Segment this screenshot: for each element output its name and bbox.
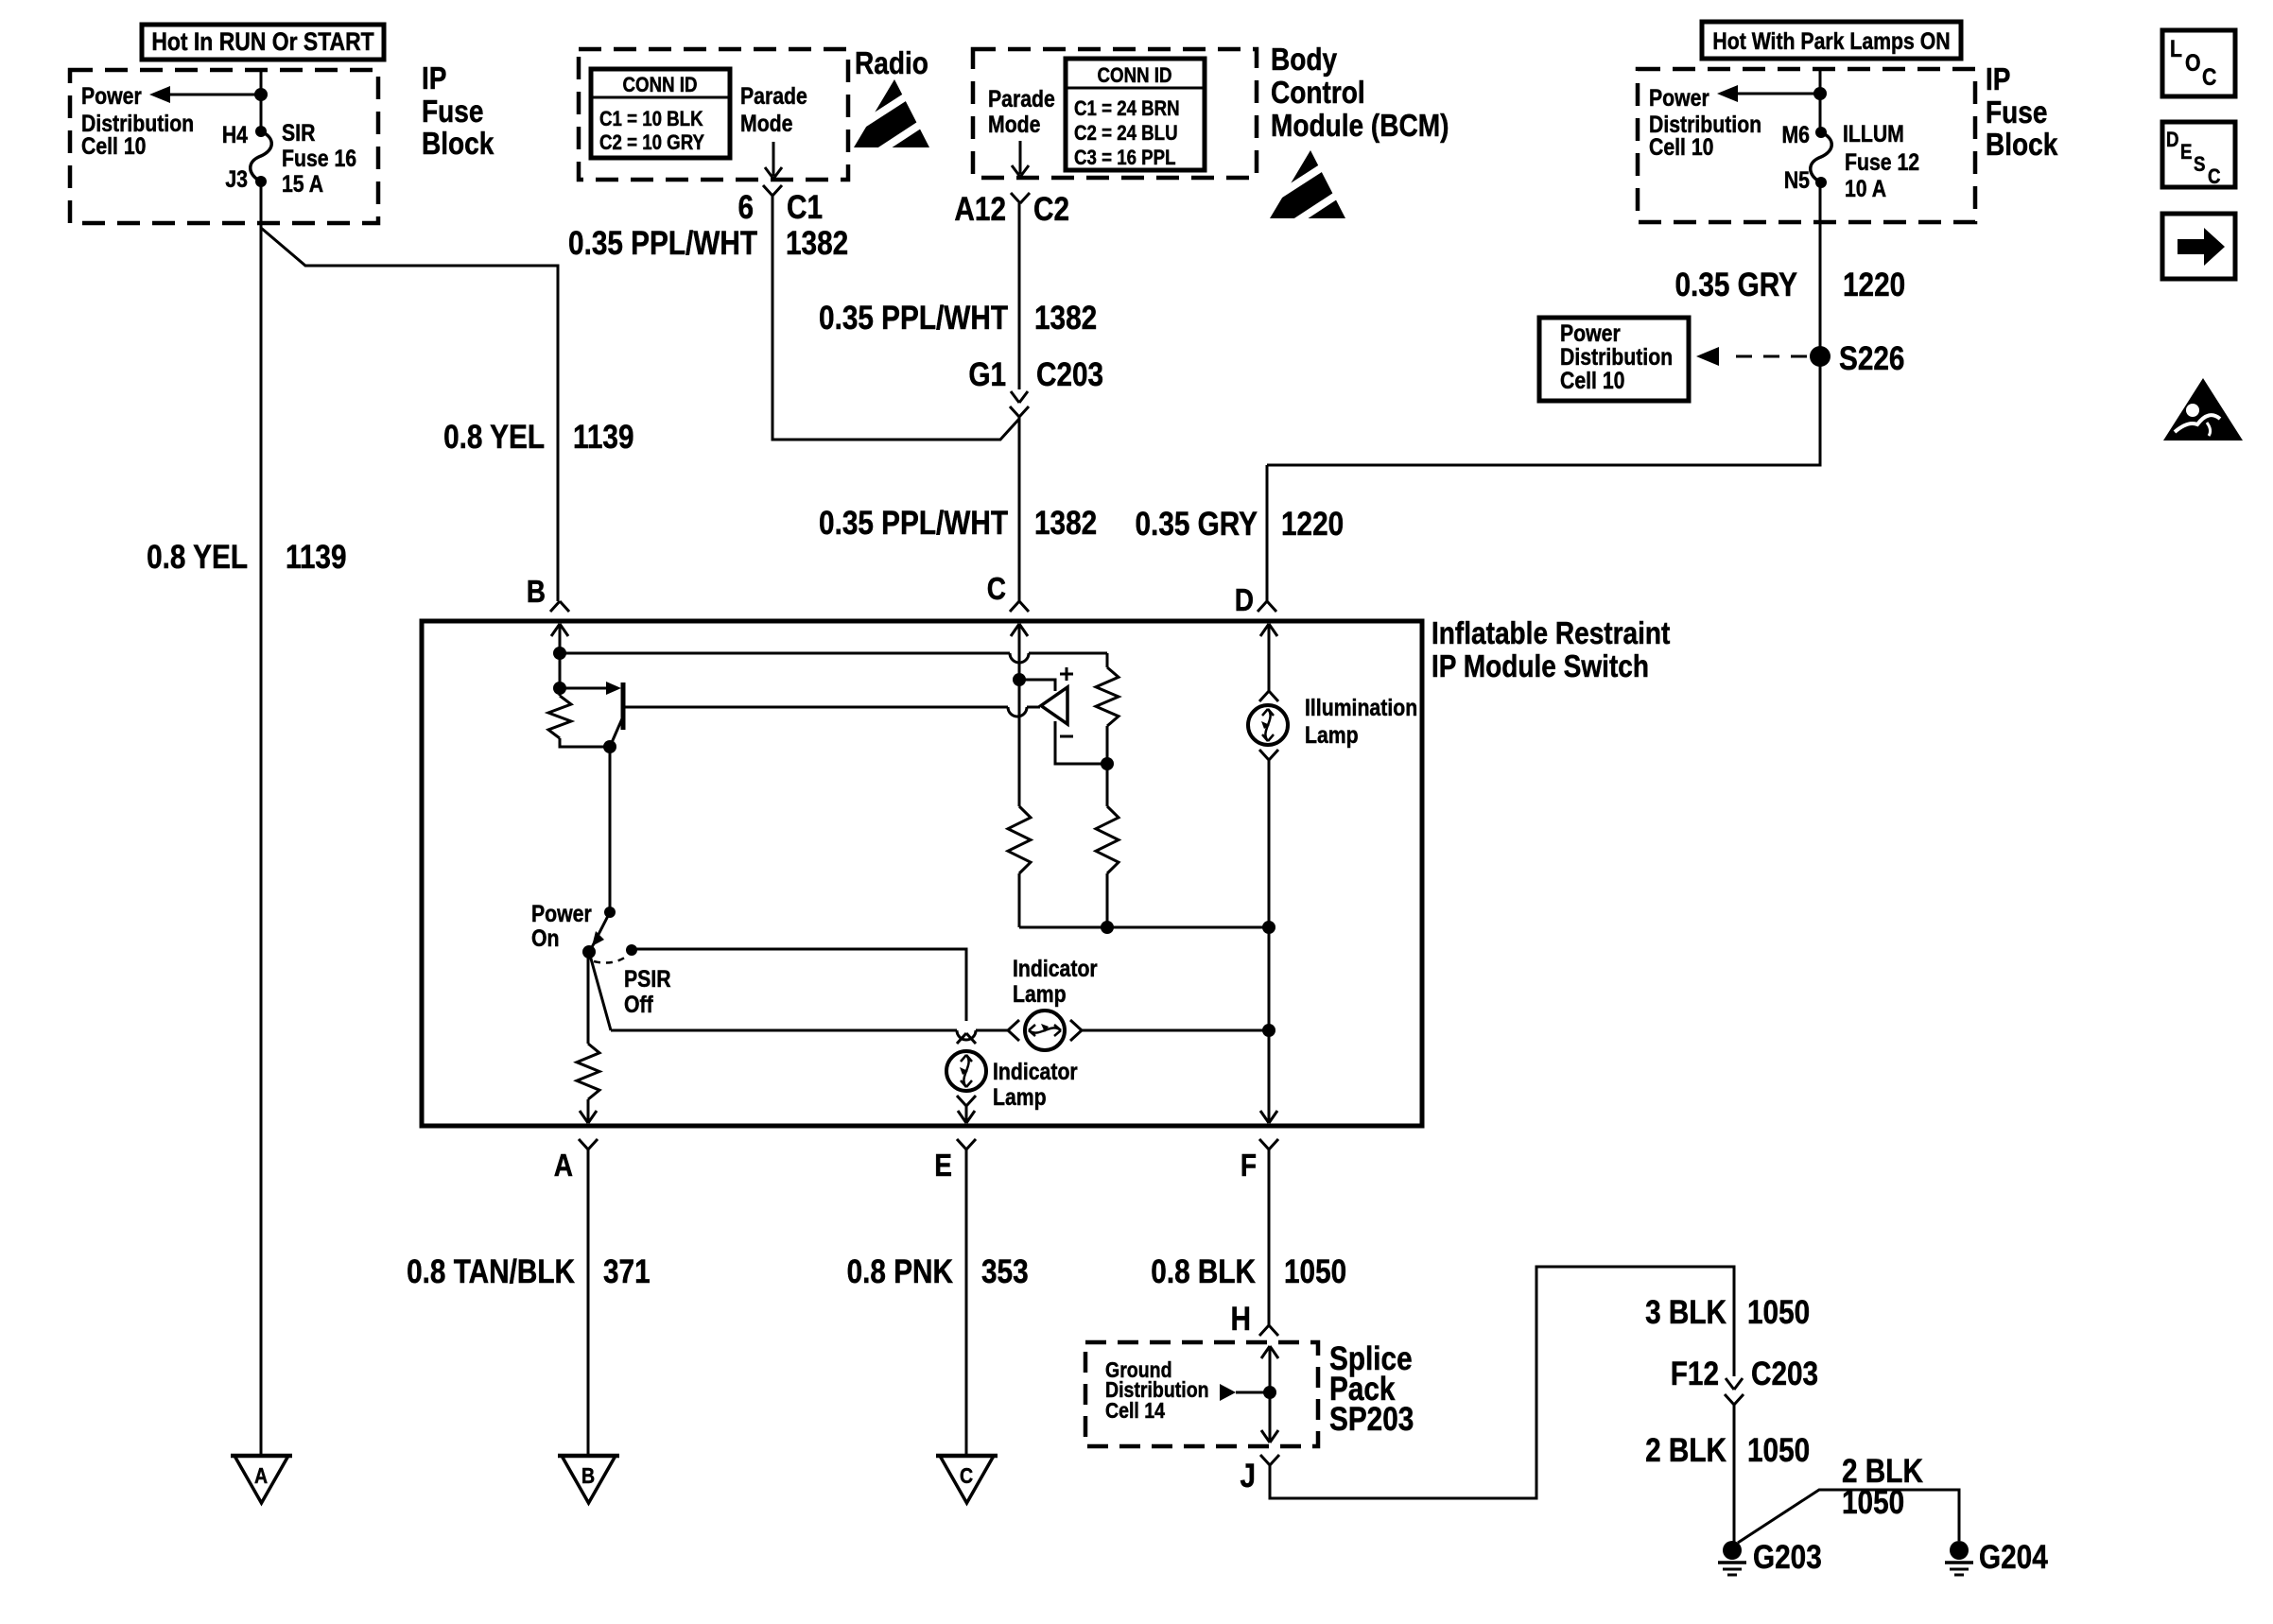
- svg-text:Lamp: Lamp: [1013, 980, 1067, 1007]
- svg-text:Mode: Mode: [988, 111, 1041, 137]
- svg-text:371: 371: [603, 1253, 651, 1290]
- svg-text:0.35 GRY: 0.35 GRY: [1675, 267, 1798, 303]
- svg-text:Module (BCM): Module (BCM): [1271, 109, 1449, 144]
- resistor R2 (comparator pull-up): [1096, 667, 1119, 764]
- switch pivot node: [582, 945, 596, 959]
- arrow: power distribution feed (left fuse block): [149, 86, 261, 103]
- svg-text:Cell 14: Cell 14: [1105, 1399, 1165, 1424]
- switch upper contact node: [604, 907, 616, 918]
- Power Distribution Cell 10 box (S226 feed): [1539, 318, 1689, 401]
- Inflatable Restraint IP Module Switch label: [1431, 616, 1670, 684]
- node: emitter / resistor junction: [603, 740, 616, 753]
- module pin C entry arrow: [1011, 624, 1028, 680]
- svg-text:B: B: [581, 1464, 595, 1489]
- IP fuse block (right) dashed box: [1638, 69, 1975, 222]
- Indicator Lamp label (L2): [1013, 955, 1098, 1007]
- svg-text:O: O: [2185, 49, 2201, 76]
- indicator lamp L2 connector chevrons: [1008, 1020, 1082, 1041]
- node: splice junction SP203: [1263, 1386, 1276, 1399]
- connector D into module: [1235, 583, 1276, 618]
- triangle connector B (bottom): [558, 1456, 619, 1503]
- module pin F exit arrow: [1260, 1111, 1277, 1123]
- BCM CONN ID table: [1066, 59, 1205, 170]
- svg-text:A: A: [554, 1149, 573, 1183]
- Indicator Lamp label (L3): [993, 1058, 1078, 1110]
- svg-text:IP: IP: [422, 61, 446, 96]
- svg-text:3 BLK: 3 BLK: [1645, 1294, 1726, 1331]
- label: 0.8 TAN/BLK | 371: [407, 1253, 651, 1290]
- label: 0.35 GRY | 1220 (upper): [1675, 267, 1906, 303]
- svg-text:Parade: Parade: [740, 82, 807, 109]
- svg-text:Cell 10: Cell 10: [81, 132, 146, 159]
- svg-text:S: S: [2194, 154, 2205, 177]
- wire: lamp line to D wire: [1082, 1029, 1269, 1032]
- wire: comparator minus input feedback: [1055, 721, 1102, 764]
- wire: E down to module edge: [965, 1106, 968, 1121]
- label: 0.8 YEL | 1139 (branch wire): [443, 419, 633, 456]
- svg-text:Distribution: Distribution: [1560, 343, 1673, 370]
- svg-text:0.8 PNK: 0.8 PNK: [847, 1253, 954, 1290]
- svg-text:E: E: [2180, 142, 2192, 164]
- svg-text:15 A: 15 A: [282, 170, 323, 197]
- svg-text:1050: 1050: [1842, 1484, 1904, 1521]
- svg-text:Fuse 16: Fuse 16: [282, 145, 356, 171]
- svg-text:1050: 1050: [1747, 1294, 1810, 1331]
- connector J below splice pack: [1240, 1455, 1279, 1494]
- transistor Q1 bar, collector and emitter: [610, 682, 1040, 747]
- svg-text:10 A: 10 A: [1845, 175, 1886, 201]
- wire: switch pivot down to resistor R5: [587, 952, 590, 1044]
- fuse F12: ILLUM Fuse 12 10 A: [1811, 120, 1919, 201]
- svg-text:Inflatable Restraint: Inflatable Restraint: [1431, 616, 1670, 651]
- icon: SRS airbag warning triangle: [2163, 378, 2243, 441]
- svg-text:Fuse: Fuse: [1986, 95, 2047, 130]
- svg-text:0.35 PPL/WHT: 0.35 PPL/WHT: [568, 225, 757, 262]
- svg-text:1220: 1220: [1843, 267, 1905, 303]
- icon: LOC box: [2162, 30, 2235, 96]
- label: 0.35 PPL/WHT | 1382 (BCM wire): [819, 300, 1097, 337]
- svg-text:Block: Block: [422, 127, 495, 162]
- svg-text:Indicator: Indicator: [1013, 955, 1098, 981]
- svg-text:IP Module Switch: IP Module Switch: [1431, 649, 1649, 684]
- svg-text:M6: M6: [1781, 121, 1810, 147]
- label: 0.8 BLK | 1050: [1151, 1253, 1346, 1290]
- svg-text:0.35 PPL/WHT: 0.35 PPL/WHT: [819, 505, 1008, 542]
- module pin A exit arrow: [580, 1111, 597, 1123]
- connector 6 / C1 (radio): [737, 185, 823, 226]
- svg-text:D: D: [2166, 130, 2179, 152]
- Splice Pack SP203 label: [1329, 1340, 1414, 1438]
- svg-text:C: C: [960, 1464, 973, 1489]
- svg-text:C1 = 24 BRN: C1 = 24 BRN: [1074, 98, 1180, 121]
- node: junction right fuse tap: [1813, 87, 1827, 100]
- arrow: power distribution feed (right fuse block): [1717, 85, 1821, 102]
- node: rail junction at D wire: [1262, 921, 1275, 934]
- svg-text:C203: C203: [1751, 1356, 1818, 1392]
- svg-text:Fuse 12: Fuse 12: [1845, 148, 1919, 175]
- svg-text:E: E: [934, 1149, 952, 1183]
- svg-text:0.8 YEL: 0.8 YEL: [443, 419, 545, 456]
- Ground Distribution Cell 14 label: [1105, 1358, 1209, 1424]
- svg-text:Parade: Parade: [988, 85, 1055, 112]
- op-amp U1 (comparator): [1041, 667, 1073, 736]
- Power Distribution Cell 10 text (right fuse block): [1649, 84, 1761, 160]
- node J3: [225, 165, 267, 192]
- fuse F16: SIR Fuse 16 15 A: [251, 119, 356, 197]
- illumination lamp L1: [1248, 705, 1288, 745]
- svg-text:Control: Control: [1271, 76, 1365, 111]
- svg-text:C: C: [2202, 63, 2217, 90]
- svg-text:B: B: [527, 575, 546, 610]
- svg-text:C2: C2: [1033, 191, 1069, 228]
- label: 0.8 YEL | 1139 (left wire): [147, 539, 346, 576]
- wire: C wire continues down (under collector line): [1018, 680, 1021, 806]
- resistor R1 (under B tap): [548, 696, 610, 747]
- PSIR Off label: [624, 965, 671, 1017]
- svg-text:1139: 1139: [573, 419, 634, 456]
- indicator lamp L2 (horizontal): [1025, 1011, 1065, 1050]
- icon: DESC box: [2162, 122, 2235, 188]
- illumination lamp connector (top): [1259, 691, 1278, 701]
- connector A12 / C2 (BCM): [954, 191, 1069, 228]
- svg-text:F: F: [1241, 1149, 1257, 1183]
- svg-text:Hot In RUN Or START: Hot In RUN Or START: [151, 27, 374, 56]
- svg-text:Power: Power: [1560, 320, 1621, 346]
- svg-text:Body: Body: [1271, 43, 1337, 78]
- svg-text:N5: N5: [1784, 166, 1810, 193]
- module pin E exit arrow: [958, 1111, 975, 1123]
- connector H into splice pack: [1231, 1301, 1278, 1338]
- wire: 0.35 GRY 1220 from fuse N5 down through S226 to corner: [1267, 182, 1820, 465]
- module pin B entry arrow: [551, 624, 568, 653]
- svg-text:J: J: [1240, 1458, 1256, 1494]
- node M6: [1781, 121, 1827, 147]
- wire: splice pack J to F12/C203 riser: [1270, 1267, 1734, 1498]
- Illumination Lamp label: [1305, 694, 1417, 748]
- svg-text:Lamp: Lamp: [1305, 721, 1359, 748]
- svg-text:H: H: [1231, 1301, 1251, 1338]
- radio parade-mode pin arrow (male, down): [765, 142, 782, 179]
- node: rail junction at B: [553, 647, 566, 660]
- svg-text:C3 = 16 PPL: C3 = 16 PPL: [1074, 147, 1176, 170]
- wire: 0.8 YEL 1139 branch from fuse to module pin B: [261, 228, 558, 601]
- node H4: [222, 121, 267, 147]
- svg-text:Mode: Mode: [740, 110, 793, 136]
- IP Fuse Block label (left): [422, 61, 495, 162]
- svg-text:1050: 1050: [1747, 1432, 1810, 1469]
- connector B into module: [527, 575, 569, 612]
- svg-text:L: L: [2170, 35, 2182, 61]
- svg-text:1382: 1382: [1034, 505, 1097, 542]
- svg-text:353: 353: [981, 1253, 1029, 1290]
- svg-text:H4: H4: [222, 121, 248, 147]
- svg-text:CONN ID: CONN ID: [1098, 65, 1172, 88]
- node: R2 / feedback junction: [1101, 757, 1114, 770]
- connector A below module: [554, 1139, 598, 1183]
- svg-text:Off: Off: [624, 991, 653, 1017]
- node N5: [1784, 166, 1827, 193]
- ground distribution pointer: [1220, 1384, 1270, 1401]
- splice pack SP203 dashed box: [1085, 1342, 1318, 1446]
- module pin D entry arrow: [1260, 624, 1277, 691]
- wire: down to switch upper contact: [609, 747, 612, 910]
- switch alternate position dashed arc: [594, 956, 628, 963]
- svg-text:S226: S226: [1839, 340, 1904, 377]
- label: 2 BLK | 1050: [1645, 1432, 1810, 1469]
- wire: 2 BLK 1050 from C203 to ground G203: [1733, 1405, 1736, 1546]
- triangle connector A (bottom left): [231, 1456, 292, 1503]
- Body Control Module (BCM) label: [1271, 43, 1449, 144]
- connector F12 / C203 (in-line): [1671, 1356, 1818, 1405]
- svg-text:0.35 GRY: 0.35 GRY: [1136, 506, 1258, 543]
- wire: 0.35 PPL/WHT 1382 from C203 down to module pin C: [1018, 417, 1021, 601]
- svg-text:G1: G1: [968, 356, 1006, 393]
- PSIR Off contact node: [626, 944, 637, 956]
- dashed arrow from S226 to power distribution box: [1696, 347, 1811, 366]
- switch blade to indicator lamp line: [589, 952, 611, 1030]
- connector G1 / C203 (in-line): [968, 356, 1103, 417]
- ESD symbol (BCM): [1268, 150, 1347, 224]
- radio CONN ID table: [591, 69, 730, 158]
- indicator lamp line with hop over E wire: [611, 1030, 1008, 1040]
- BCM dashed box: [973, 49, 1257, 178]
- svg-text:Cell 10: Cell 10: [1560, 367, 1624, 393]
- Inflatable Restraint IP Module Switch box: [422, 621, 1422, 1126]
- svg-text:Block: Block: [1986, 128, 2058, 163]
- icon: forward arrow box: [2162, 214, 2235, 279]
- svg-text:1050: 1050: [1284, 1253, 1346, 1290]
- svg-text:ILLUM: ILLUM: [1843, 120, 1904, 147]
- node: comparator input tap on C wire: [1013, 673, 1026, 686]
- svg-text:PSIR: PSIR: [624, 965, 671, 992]
- label: 0.35 GRY | 1220 (lower): [1136, 506, 1345, 543]
- svg-text:Indicator: Indicator: [993, 1058, 1078, 1084]
- svg-text:1382: 1382: [786, 225, 848, 262]
- svg-text:C203: C203: [1036, 356, 1103, 393]
- label: 3 BLK | 1050: [1645, 1294, 1810, 1331]
- svg-text:C2 = 24 BLU: C2 = 24 BLU: [1074, 123, 1178, 146]
- IP fuse block (left) dashed box: [70, 70, 378, 223]
- svg-text:C2 = 10 GRY: C2 = 10 GRY: [599, 132, 704, 155]
- svg-text:Lamp: Lamp: [993, 1083, 1047, 1110]
- svg-text:CONN ID: CONN ID: [623, 75, 698, 97]
- svg-text:Hot With Park Lamps ON: Hot With Park Lamps ON: [1712, 27, 1950, 54]
- E wire: connector and indicator lamp L3: [957, 1033, 976, 1044]
- BCM Parade Mode label: [988, 85, 1055, 137]
- svg-text:0.8 BLK: 0.8 BLK: [1151, 1253, 1256, 1290]
- wire: D down to bottom rail and F exit: [1268, 760, 1271, 1121]
- node: rail junction at R4: [1101, 921, 1114, 934]
- bottom rail joining R3, R4 to D wire: [1019, 926, 1269, 929]
- connector F below module: [1241, 1139, 1278, 1183]
- wire: 0.8 TAN/BLK 371 to connector B triangle: [587, 1149, 590, 1456]
- node: transistor base tap: [553, 682, 566, 695]
- svg-text:1139: 1139: [286, 539, 347, 576]
- IP Fuse Block label (right): [1986, 62, 2058, 163]
- svg-text:A12: A12: [954, 191, 1006, 228]
- svg-text:C1 = 10 BLK: C1 = 10 BLK: [599, 109, 703, 131]
- svg-text:Cell 10: Cell 10: [1649, 133, 1713, 160]
- svg-text:D: D: [1235, 583, 1254, 618]
- wire: 0.35 GRY 1220 down to module pin D: [1266, 465, 1269, 601]
- radio Parade Mode label: [740, 82, 807, 136]
- wire: 0.8 PNK 353 to connector C triangle: [965, 1149, 968, 1456]
- svg-text:Power: Power: [1649, 84, 1709, 111]
- label: 0.8 PNK | 353: [847, 1253, 1029, 1290]
- label: 0.35 PPL/WHT | 1382 (radio wire): [568, 225, 848, 262]
- title box: Hot With Park Lamps ON: [1702, 22, 1961, 59]
- svg-text:IP: IP: [1986, 62, 2010, 97]
- svg-text:C: C: [2208, 166, 2221, 189]
- svg-text:0.8 TAN/BLK: 0.8 TAN/BLK: [407, 1253, 575, 1290]
- wire: 0.8 YEL 1139 from fuse J3 down to connector A triangle: [260, 181, 263, 1456]
- triangle connector C (bottom): [936, 1456, 998, 1503]
- resistor R3 (on C wire): [1008, 806, 1031, 927]
- radio dashed box: [579, 49, 848, 180]
- svg-text:1220: 1220: [1281, 506, 1344, 543]
- svg-text:F12: F12: [1671, 1356, 1719, 1392]
- svg-text:C: C: [987, 572, 1006, 607]
- switch S1 blade (Power On position): [590, 912, 610, 951]
- svg-text:Illumination: Illumination: [1305, 694, 1417, 720]
- svg-text:Power: Power: [531, 900, 592, 926]
- wire: right fuse feed from top: [1819, 70, 1822, 133]
- node: lamp line junction at D wire: [1262, 1024, 1275, 1037]
- svg-text:SIR: SIR: [282, 119, 316, 146]
- wire: PSIR Off contact to E branch corner: [632, 949, 966, 1021]
- connector C into module: [987, 572, 1029, 612]
- svg-text:1382: 1382: [1034, 300, 1097, 337]
- svg-text:0.8 YEL: 0.8 YEL: [147, 539, 248, 576]
- wire: 0.35 PPL/WHT 1382 from radio C1 to splice at C203: [772, 196, 1019, 440]
- svg-text:C1: C1: [787, 189, 823, 226]
- svg-text:A: A: [254, 1464, 268, 1489]
- splice pack internal wire with arrows: [1261, 1346, 1278, 1443]
- svg-text:Power: Power: [81, 82, 142, 109]
- Power Distribution Cell 10 text (left fuse block): [81, 82, 194, 159]
- svg-text:G203: G203: [1753, 1539, 1822, 1576]
- node: junction at power distribution tap: [254, 88, 268, 101]
- svg-text:G204: G204: [1979, 1539, 2048, 1576]
- wire: C tap to comparator plus input: [1019, 680, 1055, 691]
- ground G204: [1945, 1539, 2048, 1576]
- indicator lamp L3 (on E wire): [946, 1051, 986, 1091]
- wire: 0.8 BLK 1050 from F to splice pack H: [1268, 1149, 1271, 1325]
- title box: Hot In RUN Or START: [142, 25, 384, 60]
- ESD symbol (radio): [852, 79, 931, 153]
- ground G203: [1718, 1539, 1822, 1576]
- transistor Q1 base lead with arrow: [560, 682, 621, 695]
- resistor R4 (below R2): [1096, 764, 1119, 927]
- svg-text:0.35 PPL/WHT: 0.35 PPL/WHT: [819, 300, 1008, 337]
- resistor R5 (to pin A): [577, 1044, 599, 1121]
- svg-text:Radio: Radio: [855, 46, 928, 81]
- internal rail from B to comparator resistor (hops over C wire): [560, 653, 1107, 667]
- Radio label: [855, 46, 928, 81]
- wire: fuse block feed from top: [260, 71, 263, 132]
- node S226: [1810, 340, 1904, 377]
- label: 0.35 PPL/WHT | 1382 (to module C): [819, 505, 1097, 542]
- label: 2 BLK / 1050 (G204 branch): [1842, 1453, 1923, 1521]
- E wire lower connector: [957, 1096, 976, 1106]
- wire: 0.35 PPL/WHT 1382 from BCM A12 down to C203: [1018, 203, 1021, 389]
- svg-text:On: On: [531, 924, 559, 951]
- illumination lamp connector (bottom): [1259, 750, 1278, 760]
- svg-text:6: 6: [737, 189, 754, 226]
- Power On label: [531, 900, 592, 951]
- svg-text:2 BLK: 2 BLK: [1645, 1432, 1726, 1469]
- connector E below module: [934, 1139, 976, 1183]
- svg-text:J3: J3: [225, 165, 248, 192]
- svg-text:Fuse: Fuse: [422, 95, 483, 130]
- BCM parade-mode pin arrow (male, down): [1012, 141, 1029, 177]
- wire: B down to transistor base node: [559, 653, 562, 696]
- svg-text:SP203: SP203: [1329, 1401, 1414, 1438]
- wire: 2 BLK 1050 branch from G203 to G204: [1738, 1490, 1959, 1543]
